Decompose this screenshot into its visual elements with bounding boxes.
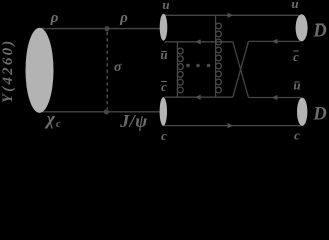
- gluon 2 axis line (from ubar line down to cbar line): [176, 42, 178, 97]
- crossing diagonal: ubar going down: [233, 42, 249, 98]
- cbar line from crossing into Dbar blob: [249, 40, 301, 42]
- svg-text:Y(4260): Y(4260): [0, 39, 16, 104]
- J/psi meson blob: [160, 97, 167, 126]
- svg-text:u: u: [162, 0, 169, 12]
- svg-text:c: c: [161, 128, 167, 141]
- gluon 2 coils: [177, 48, 183, 93]
- ellipsis dots (more gluons): [186, 64, 210, 68]
- c quark line from J/psi blob to D blob: [164, 125, 301, 127]
- sigma exchange dashed propagator: [106, 32, 108, 109]
- svg-text:c: c: [294, 127, 300, 141]
- svg-text:ρ: ρ: [119, 10, 128, 26]
- u quark line from rho blob to Dbar blob: [164, 14, 299, 16]
- arrow on u quark line (rightward): [228, 13, 233, 18]
- arrow on ubar quark line (leftward): [195, 39, 200, 44]
- svg-text:ρ: ρ: [50, 10, 59, 26]
- svg-text:D: D: [312, 104, 326, 124]
- vertex dot top (rho-sigma vertex): [104, 26, 109, 31]
- svg-text:σ: σ: [114, 60, 122, 75]
- wire: chi_c / J/psi line from Y(4260) blob to J/psi blob: [41, 111, 161, 113]
- Dbar meson blob: [296, 14, 308, 41]
- rho meson blob: [160, 14, 168, 41]
- vertex dot bottom (chi_c-sigma-J/psi vertex): [104, 109, 109, 114]
- ubar quark line from rho blob to crossing: [165, 41, 233, 43]
- wire: rho line from Y(4260) blob to sigma vertex: [41, 28, 107, 30]
- gluon 1 axis line (from u line down to cbar line): [215, 15, 217, 97]
- cbar quark line from J/psi blob to crossing: [165, 96, 233, 98]
- ubar line from crossing into D blob: [249, 97, 302, 99]
- svg-text:u: u: [291, 0, 298, 11]
- wire: rho line from sigma vertex to rho meson blob: [107, 28, 161, 30]
- svg-text:J/ψ: J/ψ: [119, 111, 148, 131]
- arrow on cbar quark line (leftward): [195, 95, 200, 100]
- arrow on c quark line (rightward): [228, 123, 233, 128]
- gluon 1 coils: [216, 23, 222, 93]
- Y(4260) source blob: [26, 28, 54, 113]
- arrow on cbar line into Dbar (leftward): [272, 39, 277, 44]
- svg-text:c: c: [56, 119, 61, 130]
- svg-text:u: u: [293, 78, 300, 93]
- D meson blob: [297, 98, 307, 126]
- arrow on ubar line into D (leftward): [272, 95, 277, 100]
- crossing diagonal: cbar going up: [233, 41, 249, 97]
- svg-text:u: u: [160, 47, 167, 62]
